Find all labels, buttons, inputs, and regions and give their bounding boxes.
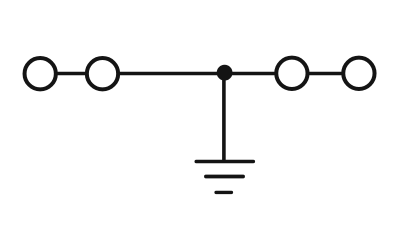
terminal circle 3 bbox=[276, 58, 307, 89]
ground bbox=[196, 162, 253, 193]
junction node bbox=[217, 65, 233, 81]
wire bbox=[57, 72, 86, 76]
terminal circle 4 bbox=[343, 58, 374, 89]
terminal circle 1 bbox=[25, 58, 56, 89]
wire bbox=[222, 73, 226, 162]
wire bbox=[119, 72, 275, 76]
wire bbox=[309, 72, 343, 76]
terminal circle 2 bbox=[87, 58, 118, 89]
